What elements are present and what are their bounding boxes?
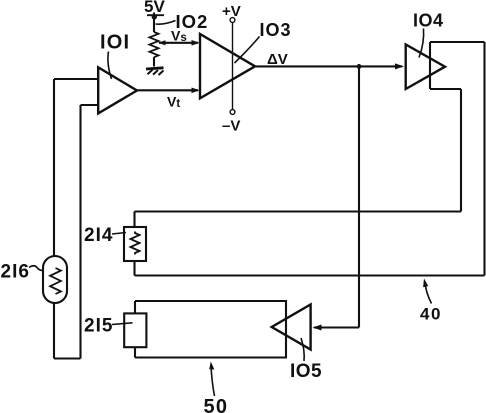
+V terminal circle	[230, 18, 235, 23]
amplifier U104	[406, 44, 445, 89]
svg-text:IO2: IO2	[176, 11, 209, 32]
amplifier U105 (points left)	[272, 305, 311, 350]
wire: upper input of 101	[54, 78, 98, 80]
wire: stub into 214 box top	[133, 212, 135, 228]
heater block 50 outline	[135, 301, 286, 358]
node dot on 5V lead	[152, 14, 157, 19]
leader dash to 214	[112, 233, 126, 235]
wire: far right vertical	[483, 42, 485, 276]
svg-text:2I6: 2I6	[1, 262, 30, 283]
svg-text:IO5: IO5	[290, 361, 322, 382]
arrowhead into 103 lower input	[192, 88, 200, 94]
arrowhead wiper at pot	[158, 40, 166, 45]
wire: right vertical to 214 loop	[460, 89, 462, 212]
svg-text:ΔV: ΔV	[267, 51, 288, 68]
leader line to 101	[108, 52, 112, 80]
arrowhead into 105 input	[313, 325, 322, 331]
junction node at deltaV	[357, 64, 362, 69]
wire: lower input of 101	[81, 104, 99, 106]
wire: stub below 214 box	[133, 261, 135, 276]
svg-text:+V: +V	[222, 3, 241, 20]
wire: main vertical from deltaV junction down	[358, 66, 360, 327]
svg-text:2I5: 2I5	[84, 316, 113, 337]
resistor element inside 214	[131, 232, 140, 255]
arrowhead into 103 upper input	[192, 40, 200, 46]
wire: left vertical down to thermistor 216	[53, 79, 55, 256]
svg-text:40: 40	[420, 305, 442, 324]
leader line to 104	[419, 29, 424, 58]
leader dash to 215	[112, 323, 133, 325]
ground symbol	[146, 68, 164, 75]
wire: Vt from 101 to 103	[137, 89, 198, 91]
wire: power rail through 103	[232, 22, 234, 109]
op-amp U103	[200, 34, 255, 98]
wire: 5V lead	[153, 13, 155, 33]
wire: top feedback horizontal	[430, 41, 485, 43]
wire: below pot to ground	[153, 57, 155, 67]
wire: Vs wiper from pot to 103	[159, 42, 198, 44]
wire: right side of left loop up	[79, 105, 81, 359]
arrow from 40 to wire	[425, 283, 432, 304]
leader line to 102	[156, 21, 176, 25]
leader line to 105	[301, 338, 304, 361]
wire: long bottom horizontal to far right	[135, 274, 485, 276]
arrow from 50 to block	[211, 365, 215, 397]
wire: stub from block top into 215	[134, 301, 136, 313]
svg-text:IOI: IOI	[100, 32, 130, 54]
wire: bottom of left loop	[54, 357, 81, 359]
amplifier U101 (buffer triangle)	[98, 67, 137, 113]
wire: deltaV output from 103 to 104	[255, 65, 402, 67]
wire: below 216	[53, 303, 55, 359]
-V terminal circle	[230, 110, 235, 115]
leader line to 103	[235, 37, 260, 64]
svg-text:50: 50	[204, 396, 229, 413]
svg-text:Vt: Vt	[167, 94, 180, 111]
arrowhead into 104 input	[395, 63, 404, 69]
wire: long horizontal to 214 top	[135, 210, 462, 212]
wire: 104 bottom step	[430, 88, 461, 90]
resistor R215 box	[124, 313, 146, 347]
potentiometer 102 resistor zigzag	[150, 32, 159, 57]
resistor element inside 216	[50, 268, 61, 294]
svg-text:–V: –V	[222, 118, 240, 135]
leader squiggle to 216	[29, 266, 44, 271]
resistor R214 box	[124, 227, 146, 261]
svg-text:IO3: IO3	[260, 20, 292, 40]
svg-text:IO4: IO4	[413, 11, 444, 31]
wire: into 105 input	[314, 326, 359, 328]
wire: stub from 215 bottom to block	[134, 347, 136, 357]
wire: vertical through 104 output	[429, 42, 431, 89]
thermistor 216 (capsule)	[43, 256, 67, 303]
svg-text:2I4: 2I4	[84, 225, 113, 246]
supply terminal bar at 5V node	[147, 14, 164, 16]
